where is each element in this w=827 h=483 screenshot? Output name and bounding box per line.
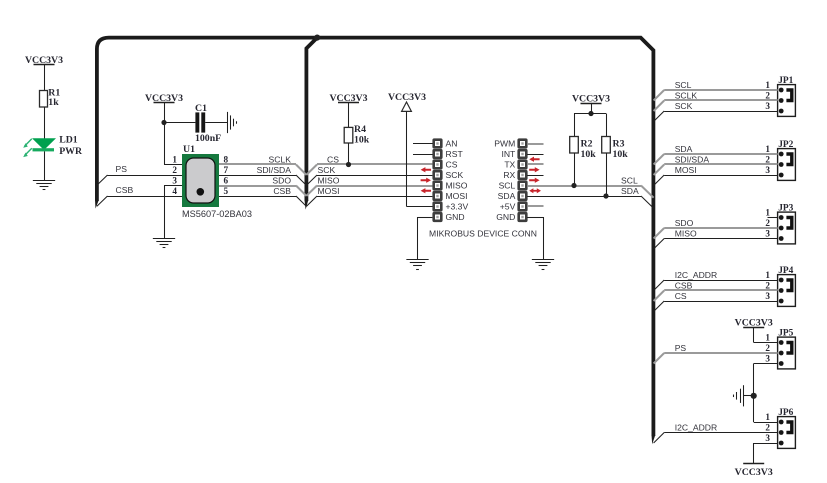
svg-text:2: 2 <box>172 165 177 175</box>
svg-text:+5V: +5V <box>500 202 516 212</box>
svg-text:SDO: SDO <box>675 218 694 228</box>
svg-text:SDA: SDA <box>675 144 693 154</box>
svg-text:MOSI: MOSI <box>446 191 468 201</box>
svg-text:CSB: CSB <box>675 280 693 290</box>
svg-text:I2C_ADDR: I2C_ADDR <box>675 422 718 432</box>
svg-text:SCK: SCK <box>446 170 464 180</box>
svg-text:10k: 10k <box>354 135 370 146</box>
svg-text:SDO: SDO <box>272 175 291 185</box>
svg-text:1: 1 <box>765 80 770 90</box>
svg-text:MISO: MISO <box>446 181 468 191</box>
svg-text:VCC3V3: VCC3V3 <box>572 93 610 104</box>
svg-text:1: 1 <box>765 412 770 422</box>
svg-text:10k: 10k <box>581 149 597 160</box>
svg-text:JP1: JP1 <box>778 76 793 86</box>
svg-text:GND: GND <box>496 212 515 222</box>
svg-text:MS5607-02BA03: MS5607-02BA03 <box>182 209 252 219</box>
svg-text:MISO: MISO <box>318 175 340 185</box>
svg-text:5: 5 <box>224 186 229 196</box>
svg-text:3: 3 <box>765 101 770 111</box>
svg-text:SDI/SDA: SDI/SDA <box>675 154 710 164</box>
svg-text:MISO: MISO <box>675 228 697 238</box>
svg-text:3: 3 <box>765 354 770 364</box>
svg-text:CS: CS <box>446 160 458 170</box>
svg-text:SCLK: SCLK <box>269 154 292 164</box>
svg-text:SCK: SCK <box>675 101 693 111</box>
svg-text:SCK: SCK <box>318 165 336 175</box>
svg-text:MOSI: MOSI <box>318 186 340 196</box>
svg-text:2: 2 <box>765 423 770 433</box>
svg-text:SCL: SCL <box>621 175 638 185</box>
svg-text:SCL: SCL <box>675 80 692 90</box>
svg-text:VCC3V3: VCC3V3 <box>735 467 773 478</box>
svg-text:1: 1 <box>765 144 770 154</box>
svg-text:R4: R4 <box>354 124 366 135</box>
svg-text:U1: U1 <box>183 144 195 155</box>
svg-text:PS: PS <box>116 164 128 174</box>
svg-text:CSB: CSB <box>116 185 134 195</box>
svg-text:CSB: CSB <box>273 186 291 196</box>
svg-text:6: 6 <box>224 176 229 186</box>
svg-text:GND: GND <box>446 212 465 222</box>
svg-text:LD1: LD1 <box>59 135 78 146</box>
svg-text:7: 7 <box>224 165 229 175</box>
svg-text:MOSI: MOSI <box>675 165 697 175</box>
svg-text:3: 3 <box>765 229 770 239</box>
svg-text:4: 4 <box>172 186 177 196</box>
svg-text:SCL: SCL <box>499 181 516 191</box>
svg-text:3: 3 <box>765 165 770 175</box>
svg-text:2: 2 <box>765 91 770 101</box>
svg-text:PWM: PWM <box>494 139 515 149</box>
svg-text:10k: 10k <box>613 149 629 160</box>
svg-text:2: 2 <box>765 343 770 353</box>
svg-text:VCC3V3: VCC3V3 <box>735 317 773 328</box>
svg-text:3: 3 <box>172 176 177 186</box>
svg-text:INT: INT <box>501 149 516 159</box>
svg-text:1k: 1k <box>48 97 59 108</box>
svg-text:TX: TX <box>504 160 515 170</box>
svg-text:CS: CS <box>675 291 687 301</box>
svg-text:JP3: JP3 <box>778 204 793 214</box>
svg-text:VCC3V3: VCC3V3 <box>388 92 426 103</box>
svg-text:RST: RST <box>446 149 464 159</box>
svg-text:I2C_ADDR: I2C_ADDR <box>675 270 718 280</box>
svg-text:1: 1 <box>765 208 770 218</box>
svg-text:SCLK: SCLK <box>675 90 698 100</box>
svg-text:AN: AN <box>446 139 458 149</box>
svg-text:PWR: PWR <box>59 146 83 157</box>
svg-text:1: 1 <box>765 270 770 280</box>
svg-text:R2: R2 <box>581 139 593 150</box>
svg-text:3: 3 <box>765 291 770 301</box>
svg-text:JP6: JP6 <box>778 408 793 418</box>
svg-text:2: 2 <box>765 155 770 165</box>
svg-text:MIKROBUS DEVICE CONN: MIKROBUS DEVICE CONN <box>429 228 537 238</box>
svg-text:VCC3V3: VCC3V3 <box>329 93 367 104</box>
svg-text:CS: CS <box>327 154 339 164</box>
svg-text:2: 2 <box>765 281 770 291</box>
svg-text:C1: C1 <box>195 103 207 114</box>
svg-text:R3: R3 <box>613 139 625 150</box>
svg-text:PS: PS <box>675 343 687 353</box>
svg-text:+3.3V: +3.3V <box>446 202 469 212</box>
svg-text:VCC3V3: VCC3V3 <box>25 55 63 66</box>
svg-text:1: 1 <box>172 155 177 165</box>
svg-text:SDI/SDA: SDI/SDA <box>257 165 292 175</box>
svg-text:JP5: JP5 <box>778 329 793 339</box>
svg-text:JP2: JP2 <box>778 140 793 150</box>
svg-text:1: 1 <box>765 333 770 343</box>
svg-text:JP4: JP4 <box>778 266 793 276</box>
svg-text:SDA: SDA <box>621 186 639 196</box>
svg-text:SDA: SDA <box>498 191 516 201</box>
svg-text:100nF: 100nF <box>195 133 221 144</box>
svg-text:RX: RX <box>503 170 515 180</box>
svg-text:VCC3V3: VCC3V3 <box>145 93 183 104</box>
svg-text:3: 3 <box>765 433 770 443</box>
svg-text:2: 2 <box>765 218 770 228</box>
